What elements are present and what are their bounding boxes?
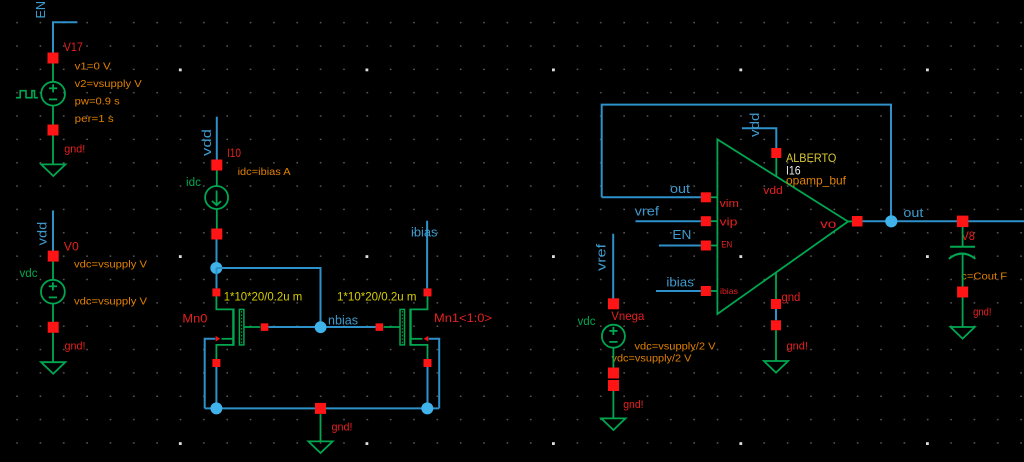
svg-text:EN: EN: [672, 227, 691, 242]
svg-text:gnd!: gnd!: [332, 422, 353, 434]
op-amp I16 triangle: [717, 139, 848, 314]
pin square I10 top: [211, 160, 222, 171]
capacitor V8 symbol: [949, 247, 976, 259]
wire feedback loop out->vim: [602, 105, 891, 222]
wire vref stub: [612, 234, 614, 299]
svg-text:gnd: gnd: [781, 292, 800, 304]
wire vdd stub: [216, 117, 218, 160]
ground symbol gnd!: [41, 362, 65, 374]
pin square V17 minus terminal: [48, 125, 59, 136]
svg-text:vdc=vsupply/2 V: vdc=vsupply/2 V: [612, 353, 692, 365]
pin square Mn0 source: [212, 359, 220, 367]
svg-text:gnd!: gnd!: [65, 341, 86, 353]
vdc V0 symbol: [41, 280, 65, 304]
svg-text:out: out: [670, 181, 690, 196]
svg-text:V0: V0: [64, 240, 79, 254]
wire diode-connect branch to nbias: [216, 268, 320, 322]
svg-text:1*10*20/0.2u m: 1*10*20/0.2u m: [337, 290, 417, 304]
pin square vim: [701, 192, 711, 202]
pin square gnd wire: [608, 380, 619, 391]
wire gnd pin to gnd symbol: [775, 309, 777, 320]
svg-text:ibias: ibias: [666, 275, 694, 290]
wire to ground: [775, 330, 777, 361]
svg-text:vdc=vsupply V: vdc=vsupply V: [74, 259, 147, 271]
svg-text:Mn0: Mn0: [182, 312, 207, 326]
svg-text:per=1 s: per=1 s: [75, 113, 114, 125]
vdc Vnega symbol: [602, 325, 625, 348]
wire stub: [52, 303, 54, 322]
pin square V17 plus terminal: [48, 53, 59, 64]
svg-text:vref: vref: [635, 204, 660, 219]
wire Mn0 source to rail: [215, 367, 217, 408]
svg-text:vdd: vdd: [747, 113, 762, 137]
wire output: [863, 220, 1024, 222]
wire to ground: [320, 414, 322, 441]
svg-text:out: out: [903, 205, 923, 220]
svg-text:vdc: vdc: [578, 316, 596, 328]
pin square Vnega minus: [608, 368, 619, 379]
svg-text:gnd!: gnd!: [973, 307, 991, 319]
wire common source rail: [205, 407, 440, 409]
wire to ground: [962, 298, 964, 327]
svg-text:vref: vref: [594, 243, 609, 270]
pin square Vnega plus: [608, 298, 619, 309]
bright grid marker dots: [179, 69, 929, 446]
wire to ground: [52, 333, 54, 362]
pin square vip: [701, 216, 711, 226]
wire ibias input: [656, 290, 701, 292]
svg-text:nbias: nbias: [328, 313, 358, 328]
svg-text:gnd!: gnd!: [623, 399, 643, 411]
svg-text:vdc=vsupply V: vdc=vsupply V: [74, 296, 147, 308]
svg-text:gnd!: gnd!: [787, 341, 808, 353]
svg-text:v1=0 V: v1=0 V: [75, 61, 111, 73]
wire EN stub: [53, 22, 77, 53]
svg-text:vim: vim: [720, 198, 740, 210]
wire stub cap top: [962, 227, 964, 247]
svg-text:vdc: vdc: [20, 268, 38, 280]
wire to ground: [52, 136, 54, 165]
svg-text:vdd: vdd: [763, 185, 783, 197]
wire stub: [612, 347, 614, 368]
transistor Mn0 symbol: [216, 296, 260, 359]
wire vref input: [636, 220, 701, 222]
wire Mn0 gate to nbias: [268, 326, 375, 328]
pin square EN: [701, 241, 711, 251]
transistor Mn1 symbol (mirrored): [376, 288, 432, 367]
pin square gnd: [771, 299, 781, 309]
pin square cap top: [957, 216, 969, 228]
wire Mn1 source to rail: [427, 367, 429, 408]
svg-text:vo: vo: [820, 219, 836, 231]
svg-text:pw=0.9 s: pw=0.9 s: [75, 96, 120, 108]
wire vim input: [602, 196, 701, 198]
pin square V0 plus terminal: [48, 251, 59, 262]
pin square vdd: [771, 148, 781, 158]
wire to drain node: [216, 240, 218, 264]
pin square cap bottom: [957, 287, 968, 298]
wire vdd stub: [742, 128, 776, 148]
svg-text:gnd!: gnd!: [64, 144, 85, 156]
wire junction to Mn0 drain: [216, 268, 218, 288]
svg-text:vdd: vdd: [199, 129, 214, 156]
node junction (drain of Mn0): [210, 262, 222, 274]
bulk arrow Mn0: [216, 336, 221, 342]
svg-text:EN: EN: [721, 239, 732, 250]
idc I10 symbol (arrow down in circle): [205, 186, 228, 209]
wire EN input: [659, 245, 701, 247]
ground symbol gnd!: [41, 164, 65, 176]
ground symbol gnd!: [951, 327, 975, 339]
svg-text:v2=vsupply V: v2=vsupply V: [75, 78, 142, 90]
svg-text:c=Cout F: c=Cout F: [961, 271, 1007, 283]
pin square vo: [852, 216, 863, 227]
pin square ibias: [701, 286, 711, 296]
wire stub cap bottom: [962, 254, 964, 287]
svg-text:opamp_buf: opamp_buf: [786, 174, 847, 188]
node junction rail left: [210, 402, 222, 414]
svg-text:1*10*20/0.2u m: 1*10*20/0.2u m: [224, 290, 303, 304]
pin square I10 bottom: [211, 229, 222, 240]
ground symbol (opamp): [764, 361, 788, 373]
pin square Mn0 drain: [212, 288, 220, 296]
svg-text:ibias: ibias: [720, 286, 738, 296]
node junction rail right: [421, 402, 433, 414]
wire stub: [216, 171, 218, 187]
svg-text:idc: idc: [186, 177, 201, 189]
svg-text:vip: vip: [720, 217, 738, 229]
vpulse V17 symbol: [16, 82, 65, 106]
svg-text:EN: EN: [33, 1, 48, 19]
svg-text:vdd: vdd: [35, 222, 50, 246]
wire vdd stub: [52, 210, 54, 252]
wire Mn0 bulk to rail: [205, 339, 216, 409]
node out junction: [885, 215, 897, 227]
pin square V0 minus terminal: [48, 322, 59, 333]
svg-text:ibias: ibias: [411, 224, 438, 239]
wire stub: [216, 209, 218, 229]
wire stub: [52, 262, 54, 280]
wire stub vpulse bottom: [52, 105, 54, 124]
svg-text:I10: I10: [227, 146, 241, 160]
op-amp input pin stubs: [711, 158, 853, 299]
ground symbol gnd!: [601, 418, 625, 430]
wire ibias stub at Mn1 drain: [426, 221, 428, 289]
node nbias junction: [315, 321, 327, 333]
svg-text:V17: V17: [64, 40, 83, 54]
svg-text:Vnega: Vnega: [611, 309, 644, 323]
svg-text:idc=ibias A: idc=ibias A: [238, 166, 291, 178]
wire stub to vpulse top: [52, 64, 54, 83]
svg-text:vdc=vsupply/2 V: vdc=vsupply/2 V: [635, 341, 716, 353]
pin square gnd wire: [771, 320, 781, 330]
svg-text:Mn1<1:0>: Mn1<1:0>: [434, 311, 492, 325]
wire to ground: [612, 391, 614, 418]
pin square rail gnd: [315, 403, 326, 414]
ground symbol (rail): [308, 441, 332, 453]
pin square Mn0 gate: [261, 323, 269, 331]
wire Mn1 bulk to rail: [429, 339, 440, 409]
